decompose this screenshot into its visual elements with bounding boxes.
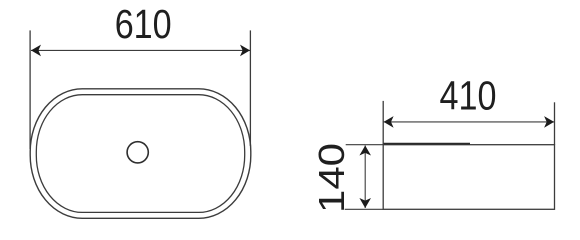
extension line right (610)	[249, 30, 251, 146]
dimension line 410	[384, 121, 554, 123]
dimension line 140	[364, 146, 366, 209]
arrowhead left (610)	[31, 45, 41, 57]
side view rim dark segment on top edge	[383, 143, 470, 145]
svg-text:410: 410	[440, 73, 497, 119]
arrowhead down (140)	[359, 198, 371, 208]
basin outer outline (top view)	[30, 89, 251, 219]
svg-text:610: 610	[115, 1, 172, 47]
arrowhead left (410)	[384, 116, 394, 128]
extension line left (610)	[29, 30, 31, 149]
arrowhead up (140)	[359, 146, 371, 156]
svg-text:140: 140	[311, 143, 352, 213]
side view body rectangle	[383, 145, 554, 210]
arrowhead right (610)	[240, 45, 250, 57]
extension line right (410)	[554, 102, 556, 144]
dimension line 610	[31, 49, 250, 51]
arrowhead right (410)	[544, 116, 554, 128]
drain hole	[127, 142, 148, 163]
extension line left (410)	[382, 101, 384, 145]
side view top edge extension (left, 140 top extension)	[346, 144, 384, 146]
side view bottom edge extension (left, 140 bottom extension)	[345, 208, 384, 210]
basin inner rim outline	[36, 95, 244, 213]
